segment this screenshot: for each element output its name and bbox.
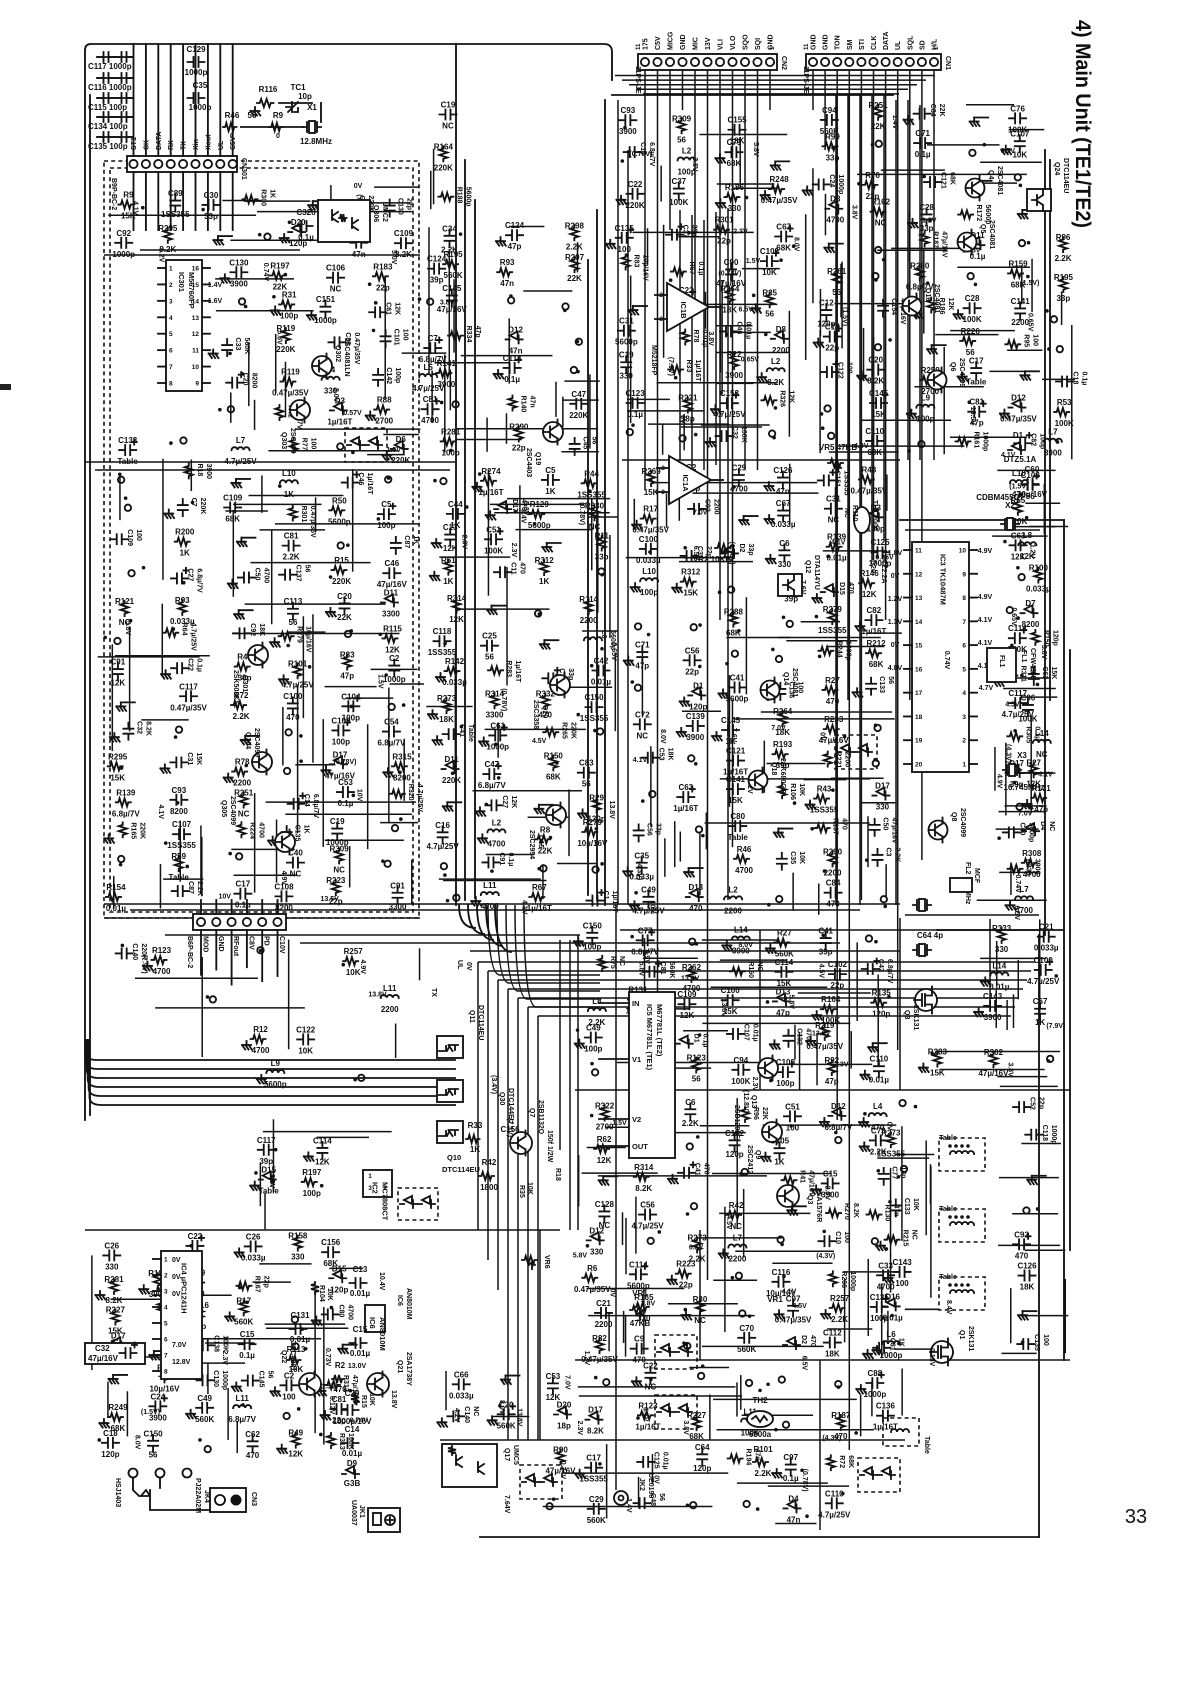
svg-text:1.3V: 1.3V xyxy=(888,619,903,626)
svg-text:C56: C56 xyxy=(685,646,700,655)
svg-text:R301: R301 xyxy=(714,216,734,225)
svg-text:R281: R281 xyxy=(104,1275,124,1284)
svg-text:C61: C61 xyxy=(385,302,392,315)
svg-text:R160: R160 xyxy=(747,961,754,978)
svg-text:R187: R187 xyxy=(932,231,939,248)
svg-text:0: 0 xyxy=(276,133,280,140)
svg-text:MOD: MOD xyxy=(202,936,209,952)
svg-text:10V: 10V xyxy=(355,789,362,802)
svg-text:3.8V: 3.8V xyxy=(641,1300,656,1307)
svg-text:C124: C124 xyxy=(505,221,525,230)
svg-text:C143: C143 xyxy=(983,992,1003,1001)
svg-text:R281: R281 xyxy=(441,427,461,436)
svg-text:R215: R215 xyxy=(902,1230,909,1247)
svg-text:R41: R41 xyxy=(799,1170,806,1183)
svg-text:X2: X2 xyxy=(1005,501,1015,510)
svg-text:C11: C11 xyxy=(510,562,517,575)
svg-text:PJ22A02M: PJ22A02M xyxy=(194,1478,201,1513)
svg-text:1µ/16T: 1µ/16T xyxy=(327,417,352,426)
svg-text:C52: C52 xyxy=(1029,1097,1036,1110)
svg-text:R35: R35 xyxy=(518,1185,525,1198)
svg-text:R290: R290 xyxy=(509,423,529,432)
svg-text:C141: C141 xyxy=(1011,297,1031,306)
svg-text:68K: 68K xyxy=(847,1455,854,1468)
svg-text:15K: 15K xyxy=(195,752,202,765)
svg-text:1SS355: 1SS355 xyxy=(428,648,457,657)
svg-text:1.2V: 1.2V xyxy=(1029,544,1036,559)
svg-text:D17: D17 xyxy=(511,499,518,512)
svg-text:R193: R193 xyxy=(773,740,793,749)
svg-text:(4.3V): (4.3V) xyxy=(635,861,642,880)
svg-text:Q9: Q9 xyxy=(754,1150,761,1159)
svg-text:C20: C20 xyxy=(868,356,883,365)
svg-text:220K: 220K xyxy=(569,411,588,420)
svg-text:ST1: ST1 xyxy=(131,137,138,150)
svg-text:11: 11 xyxy=(915,548,922,555)
svg-text:18: 18 xyxy=(915,714,923,721)
svg-text:3.8V: 3.8V xyxy=(1040,645,1047,660)
svg-text:(12.8V): (12.8V) xyxy=(742,1090,749,1113)
svg-text:3: 3 xyxy=(169,298,173,305)
svg-text:1000p: 1000p xyxy=(837,174,844,194)
svg-text:56: 56 xyxy=(304,565,311,573)
svg-text:2: 2 xyxy=(169,282,173,289)
svg-text:C25: C25 xyxy=(482,632,497,641)
svg-text:VR6: VR6 xyxy=(543,1255,550,1269)
svg-text:15K: 15K xyxy=(110,773,125,782)
svg-text:100p: 100p xyxy=(377,521,395,530)
svg-text:1.8V: 1.8V xyxy=(888,550,903,557)
svg-text:Table: Table xyxy=(169,873,190,882)
svg-text:C31: C31 xyxy=(186,752,193,765)
svg-text:C35: C35 xyxy=(789,851,796,864)
svg-text:8.0V: 8.0V xyxy=(793,237,800,252)
svg-text:16.745MHz: 16.745MHz xyxy=(1004,783,1045,792)
svg-text:R249: R249 xyxy=(108,1403,128,1412)
svg-text:UA0037: UA0037 xyxy=(350,1500,357,1526)
svg-text:C84: C84 xyxy=(826,879,841,888)
svg-text:CFW455F: CFW455F xyxy=(1029,648,1036,681)
svg-text:5.8V: 5.8V xyxy=(124,621,131,636)
svg-text:C41: C41 xyxy=(730,673,745,682)
svg-text:470: 470 xyxy=(286,713,300,722)
svg-text:C81: C81 xyxy=(284,532,299,541)
svg-text:C24: C24 xyxy=(151,1392,166,1401)
svg-text:6.5V: 6.5V xyxy=(800,1356,807,1371)
svg-text:R12: R12 xyxy=(253,1025,268,1034)
svg-text:C17: C17 xyxy=(586,1454,601,1463)
svg-text:15: 15 xyxy=(915,643,923,650)
svg-text:L2: L2 xyxy=(492,818,502,827)
svg-text:C17: C17 xyxy=(969,357,984,366)
svg-text:C77: C77 xyxy=(638,926,653,935)
svg-text:C107: C107 xyxy=(172,820,192,829)
svg-text:3.8V: 3.8V xyxy=(440,300,455,307)
svg-text:C76: C76 xyxy=(1010,104,1025,113)
svg-text:150f 1/2W: 150f 1/2W xyxy=(546,1130,553,1163)
svg-text:C101: C101 xyxy=(393,329,400,346)
svg-text:4.7V: 4.7V xyxy=(979,685,994,692)
svg-text:(7.9V): (7.9V) xyxy=(1046,1023,1065,1030)
svg-text:C125: C125 xyxy=(653,1452,660,1469)
svg-text:C71: C71 xyxy=(915,129,930,138)
svg-text:R227: R227 xyxy=(106,1306,126,1315)
svg-text:1SS355: 1SS355 xyxy=(161,210,190,219)
svg-text:7: 7 xyxy=(169,364,173,371)
svg-text:1.4V: 1.4V xyxy=(208,282,223,289)
svg-text:Q15: Q15 xyxy=(537,835,544,848)
svg-text:C31: C31 xyxy=(826,495,841,504)
svg-text:Q24: Q24 xyxy=(1053,162,1060,175)
svg-text:Q303: Q303 xyxy=(280,432,287,449)
svg-text:R115: R115 xyxy=(383,624,402,633)
svg-text:47p: 47p xyxy=(340,672,354,681)
svg-text:C91: C91 xyxy=(390,881,405,890)
svg-text:Q3: Q3 xyxy=(903,1010,910,1019)
svg-text:R139: R139 xyxy=(116,788,136,797)
svg-text:C2: C2 xyxy=(389,654,400,663)
svg-text:12K: 12K xyxy=(288,1450,303,1459)
svg-text:470: 470 xyxy=(689,904,703,913)
svg-text:4.9V: 4.9V xyxy=(359,959,366,974)
svg-text:100K: 100K xyxy=(669,198,688,207)
svg-text:2.3V: 2.3V xyxy=(751,1077,758,1092)
svg-text:5.0V: 5.0V xyxy=(390,250,397,265)
svg-text:47n: 47n xyxy=(528,396,535,408)
svg-text:0V: 0V xyxy=(891,573,900,580)
svg-text:R212: R212 xyxy=(866,639,886,648)
svg-text:2SC2954: 2SC2954 xyxy=(528,830,535,859)
svg-text:C60: C60 xyxy=(1025,465,1040,474)
svg-text:D7: D7 xyxy=(1025,599,1036,608)
svg-text:NC: NC xyxy=(599,1221,611,1230)
svg-text:2200: 2200 xyxy=(713,499,720,515)
svg-text:D17: D17 xyxy=(333,750,348,759)
svg-text:13.8V: 13.8V xyxy=(608,801,615,820)
svg-text:R172: R172 xyxy=(975,205,982,222)
svg-text:1000p: 1000p xyxy=(486,742,509,751)
svg-text:4700: 4700 xyxy=(487,839,505,848)
svg-text:R83: R83 xyxy=(340,651,355,660)
svg-text:IC6: IC6 xyxy=(368,1317,377,1329)
svg-text:5.8V: 5.8V xyxy=(573,1252,588,1259)
svg-text:VR5 47KB: VR5 47KB xyxy=(819,443,857,452)
svg-text:R158: R158 xyxy=(288,1232,308,1241)
svg-text:0.1µ: 0.1µ xyxy=(1033,726,1040,740)
svg-text:10K: 10K xyxy=(762,268,777,277)
svg-text:3900: 3900 xyxy=(1044,449,1062,458)
svg-text:R150: R150 xyxy=(544,751,564,760)
svg-text:R33: R33 xyxy=(468,1121,483,1130)
svg-text:B6P-BC-2: B6P-BC-2 xyxy=(186,936,193,968)
svg-text:56: 56 xyxy=(658,1493,665,1501)
svg-text:C15: C15 xyxy=(823,1169,838,1178)
svg-text:D1: D1 xyxy=(693,681,704,690)
svg-text:8200: 8200 xyxy=(393,773,411,782)
svg-text:R22: R22 xyxy=(727,350,742,359)
svg-text:56: 56 xyxy=(966,348,975,357)
svg-text:2SK680GR: 2SK680GR xyxy=(779,758,786,794)
svg-text:5600p: 5600p xyxy=(328,517,351,526)
svg-text:2.2K: 2.2K xyxy=(831,1315,848,1324)
svg-text:R42: R42 xyxy=(482,1158,497,1167)
svg-text:(0.78V): (0.78V) xyxy=(500,688,507,711)
svg-text:TC1: TC1 xyxy=(290,83,306,92)
svg-text:12K: 12K xyxy=(1011,552,1026,561)
svg-text:R221: R221 xyxy=(678,394,698,403)
svg-text:CN3: CN3 xyxy=(250,1492,257,1506)
svg-text:R207: R207 xyxy=(565,253,585,262)
svg-text:R279: R279 xyxy=(296,626,303,643)
svg-text:IC5 M67781L (TE1): IC5 M67781L (TE1) xyxy=(645,1004,654,1071)
svg-text:10K: 10K xyxy=(298,1046,313,1055)
svg-text:R333: R333 xyxy=(992,924,1012,933)
svg-text:47p: 47p xyxy=(1034,805,1048,814)
svg-text:13.5V: 13.5V xyxy=(268,1170,275,1189)
svg-text:Q5: Q5 xyxy=(979,224,986,233)
svg-text:0.73V: 0.73V xyxy=(324,1348,331,1367)
svg-text:10µ/16V: 10µ/16V xyxy=(1017,490,1048,499)
svg-text:R50: R50 xyxy=(332,496,347,505)
svg-text:R101: R101 xyxy=(288,659,308,668)
svg-text:TX: TX xyxy=(181,141,188,150)
svg-text:R46: R46 xyxy=(225,111,240,120)
svg-text:1: 1 xyxy=(164,1257,168,1264)
svg-text:100p: 100p xyxy=(280,311,298,320)
svg-text:(0.78V): (0.78V) xyxy=(629,151,652,158)
svg-text:R110: R110 xyxy=(851,505,858,521)
svg-text:0.1µ: 0.1µ xyxy=(196,658,203,672)
svg-text:2SC2412: 2SC2412 xyxy=(746,1145,753,1174)
svg-text:R9: R9 xyxy=(123,191,134,200)
svg-text:R257: R257 xyxy=(830,1294,850,1303)
svg-text:R15: R15 xyxy=(360,1395,367,1408)
svg-text:R106: R106 xyxy=(789,783,796,800)
svg-text:8: 8 xyxy=(169,381,173,388)
svg-text:C22: C22 xyxy=(187,658,194,671)
svg-text:0.01µ: 0.01µ xyxy=(869,1076,890,1085)
svg-text:C46: C46 xyxy=(357,473,364,486)
svg-text:C128: C128 xyxy=(595,1200,615,1209)
svg-text:0V: 0V xyxy=(172,1257,181,1264)
svg-text:3.8V: 3.8V xyxy=(1006,1062,1013,1077)
svg-text:5.8V: 5.8V xyxy=(637,962,644,977)
svg-text:R159: R159 xyxy=(1008,259,1028,268)
svg-text:R315: R315 xyxy=(392,752,412,761)
svg-text:4.7µ/25V: 4.7µ/25V xyxy=(427,842,460,851)
svg-text:2700: 2700 xyxy=(375,417,393,426)
svg-text:100K: 100K xyxy=(221,1335,228,1352)
svg-text:8.2K: 8.2K xyxy=(635,1184,652,1193)
svg-text:R224: R224 xyxy=(248,822,255,839)
svg-text:3: 3 xyxy=(368,1185,372,1192)
svg-text:100K: 100K xyxy=(731,1077,750,1086)
svg-text:100p: 100p xyxy=(584,1045,602,1054)
svg-text:C83: C83 xyxy=(579,759,594,768)
svg-text:JK1: JK1 xyxy=(358,1505,365,1518)
svg-text:C140: C140 xyxy=(131,943,138,960)
svg-text:Q4: Q4 xyxy=(987,170,994,179)
svg-text:SD: SD xyxy=(919,40,926,50)
svg-text:560K: 560K xyxy=(737,1345,756,1354)
svg-text:C8V: C8V xyxy=(247,936,254,950)
svg-text:C155: C155 xyxy=(727,116,747,125)
svg-text:C108: C108 xyxy=(274,882,294,891)
svg-text:C109: C109 xyxy=(394,229,414,238)
svg-text:C133: C133 xyxy=(903,1198,910,1215)
svg-text:2SC4081: 2SC4081 xyxy=(996,166,1003,195)
svg-text:C29: C29 xyxy=(345,1389,360,1398)
svg-text:C62: C62 xyxy=(245,1430,260,1439)
svg-text:C150: C150 xyxy=(583,921,603,930)
svg-text:C27: C27 xyxy=(501,795,508,808)
svg-text:NC: NC xyxy=(330,285,342,294)
svg-text:33p: 33p xyxy=(1056,294,1070,303)
svg-text:C114: C114 xyxy=(1008,624,1027,633)
svg-text:120p: 120p xyxy=(693,1464,711,1473)
svg-text:Table: Table xyxy=(966,378,987,387)
svg-text:C117 1000p: C117 1000p xyxy=(88,62,132,71)
svg-text:19: 19 xyxy=(915,738,923,745)
svg-text:C97: C97 xyxy=(783,1453,798,1462)
svg-text:6.8µ/7V: 6.8µ/7V xyxy=(312,794,319,819)
svg-text:IC301: IC301 xyxy=(177,272,186,292)
svg-text:NC: NC xyxy=(843,508,850,518)
svg-text:R302: R302 xyxy=(984,1048,1004,1057)
svg-text:R295: R295 xyxy=(108,752,128,761)
svg-text:220K: 220K xyxy=(569,722,576,739)
svg-text:R33: R33 xyxy=(685,359,692,372)
svg-text:13.5V: 13.5V xyxy=(969,407,976,426)
svg-text:Q21: Q21 xyxy=(396,1360,403,1373)
svg-text:17: 17 xyxy=(915,690,923,697)
svg-text:C117: C117 xyxy=(179,682,198,691)
svg-text:12K: 12K xyxy=(787,390,794,403)
svg-text:Table: Table xyxy=(728,833,749,842)
svg-text:12K: 12K xyxy=(597,1156,612,1165)
svg-text:100K: 100K xyxy=(963,315,982,324)
svg-text:22K: 22K xyxy=(938,104,945,117)
svg-text:R96: R96 xyxy=(1056,233,1071,242)
svg-text:13V: 13V xyxy=(705,37,712,50)
svg-text:8.2K: 8.2K xyxy=(867,377,884,386)
svg-text:2200: 2200 xyxy=(824,868,842,877)
svg-text:G3B: G3B xyxy=(344,1479,361,1488)
svg-text:C126: C126 xyxy=(1017,1262,1037,1271)
svg-text:C42: C42 xyxy=(877,959,884,972)
svg-text:C109: C109 xyxy=(760,247,780,256)
svg-text:1000p: 1000p xyxy=(189,103,212,112)
svg-text:NC: NC xyxy=(618,956,625,966)
svg-text:0.01µ: 0.01µ xyxy=(350,1349,371,1358)
svg-text:R273: R273 xyxy=(881,1128,901,1137)
svg-text:R9: R9 xyxy=(273,111,284,120)
svg-text:13.5V: 13.5V xyxy=(320,896,339,903)
svg-text:UMC2: UMC2 xyxy=(381,202,388,222)
svg-text:IC4 µPC1241H: IC4 µPC1241H xyxy=(180,1263,189,1314)
svg-text:4: 4 xyxy=(164,1305,168,1312)
svg-text:22p: 22p xyxy=(717,237,731,246)
svg-text:NC: NC xyxy=(290,870,302,879)
svg-text:Q8: Q8 xyxy=(950,812,957,821)
svg-text:Q3: Q3 xyxy=(806,1195,813,1204)
svg-text:(4.3V): (4.3V) xyxy=(1004,744,1011,763)
svg-text:R290: R290 xyxy=(823,847,843,856)
svg-text:C93: C93 xyxy=(172,786,187,795)
svg-text:8200: 8200 xyxy=(170,807,188,816)
svg-text:15K: 15K xyxy=(728,796,743,805)
svg-text:12K: 12K xyxy=(385,645,400,654)
svg-text:0.01µ: 0.01µ xyxy=(350,1289,371,1298)
svg-text:D3: D3 xyxy=(335,396,346,405)
svg-text:100: 100 xyxy=(895,1279,909,1288)
svg-text:C130: C130 xyxy=(212,1370,219,1387)
svg-text:M67781L (TE2): M67781L (TE2) xyxy=(655,1004,664,1057)
svg-text:1: 1 xyxy=(962,762,966,769)
svg-text:C37: C37 xyxy=(671,177,686,186)
svg-text:C100: C100 xyxy=(1034,956,1054,965)
svg-text:C109: C109 xyxy=(126,529,133,546)
svg-text:STI: STI xyxy=(859,39,866,50)
svg-text:R88: R88 xyxy=(377,396,392,405)
svg-text:1SS355: 1SS355 xyxy=(877,1149,906,1158)
svg-text:C326: C326 xyxy=(296,208,316,217)
svg-text:FL1: FL1 xyxy=(1020,650,1027,663)
svg-text:C117: C117 xyxy=(1008,689,1027,698)
svg-text:C133: C133 xyxy=(118,436,138,445)
svg-text:6.8µ/7V: 6.8µ/7V xyxy=(478,781,506,790)
svg-text:1K: 1K xyxy=(180,549,190,558)
svg-text:R248: R248 xyxy=(770,175,790,184)
svg-text:R298: R298 xyxy=(565,221,585,230)
svg-text:4.2V: 4.2V xyxy=(453,1408,460,1423)
svg-text:NC: NC xyxy=(637,731,649,740)
svg-text:C18: C18 xyxy=(103,1429,118,1438)
svg-text:470: 470 xyxy=(809,1335,816,1347)
svg-text:R6: R6 xyxy=(587,1264,598,1273)
svg-text:C84: C84 xyxy=(929,104,936,117)
svg-text:R273: R273 xyxy=(688,1233,708,1242)
svg-text:68K: 68K xyxy=(546,772,561,781)
svg-text:C97: C97 xyxy=(786,1294,801,1303)
svg-text:100p: 100p xyxy=(776,1079,794,1088)
svg-text:Q6: Q6 xyxy=(949,362,956,371)
svg-text:0.1µ: 0.1µ xyxy=(504,375,520,384)
svg-text:10p: 10p xyxy=(298,92,312,101)
svg-text:560K: 560K xyxy=(243,338,250,355)
svg-text:TON: TON xyxy=(835,35,842,50)
svg-text:Q301: Q301 xyxy=(241,675,248,692)
svg-text:C64: C64 xyxy=(695,1443,710,1452)
svg-text:15K: 15K xyxy=(108,1327,123,1336)
svg-text:0: 0 xyxy=(230,133,234,140)
svg-text:39p: 39p xyxy=(819,948,833,957)
svg-text:470: 470 xyxy=(246,1451,260,1460)
svg-text:C5V: C5V xyxy=(655,36,662,50)
svg-text:22K: 22K xyxy=(761,1107,768,1120)
svg-text:100: 100 xyxy=(786,1123,800,1132)
svg-text:0.033µ: 0.033µ xyxy=(1026,585,1051,594)
svg-text:22p: 22p xyxy=(262,1276,269,1288)
svg-text:R264: R264 xyxy=(773,707,793,716)
svg-text:0.1µ: 0.1µ xyxy=(298,233,314,242)
svg-text:DTC114EU: DTC114EU xyxy=(477,1005,484,1040)
svg-text:C110: C110 xyxy=(865,427,884,436)
svg-text:D17: D17 xyxy=(875,782,890,791)
svg-text:D2: D2 xyxy=(738,543,745,552)
svg-text:R141: R141 xyxy=(437,359,457,368)
svg-text:R326: R326 xyxy=(778,390,785,407)
